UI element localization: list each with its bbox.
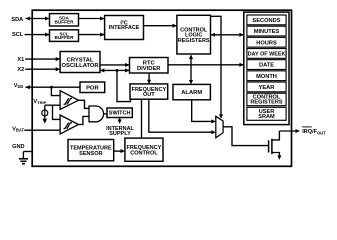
svg-text:INTERFACE: INTERFACE [109, 25, 140, 31]
svg-text:BUFFER: BUFFER [54, 35, 74, 40]
svg-text:VDD: VDD [14, 83, 24, 89]
svg-text:SCL: SCL [12, 32, 24, 38]
svg-text:REGISTERS: REGISTERS [250, 100, 283, 106]
svg-text:MONTH: MONTH [256, 74, 277, 80]
svg-text:SUPPLY: SUPPLY [109, 131, 131, 137]
svg-text:DIVIDER: DIVIDER [137, 66, 161, 72]
svg-text:ALARM: ALARM [181, 90, 202, 96]
svg-text:OUT: OUT [143, 92, 155, 98]
svg-text:GND: GND [12, 144, 24, 150]
svg-text:MINUTES: MINUTES [254, 29, 280, 35]
svg-text:SENSOR: SENSOR [79, 151, 102, 157]
svg-text:VBAT: VBAT [12, 127, 24, 133]
svg-text:SECONDS: SECONDS [252, 18, 280, 24]
svg-text:DATE: DATE [259, 63, 274, 69]
svg-text:DAY OF WEEK: DAY OF WEEK [248, 51, 286, 57]
svg-text:IRQ/FOUT: IRQ/FOUT [302, 129, 326, 135]
svg-text:SDA: SDA [11, 17, 23, 23]
svg-text:X2: X2 [17, 67, 24, 73]
svg-text:X1: X1 [17, 57, 24, 63]
svg-text:HOURS: HOURS [256, 40, 277, 46]
svg-text:REGISTERS: REGISTERS [178, 38, 210, 44]
svg-text:OSCILLATOR: OSCILLATOR [61, 63, 99, 69]
svg-text:YEAR: YEAR [259, 85, 275, 91]
svg-text:CONTROL: CONTROL [130, 150, 158, 156]
svg-text:SRAM: SRAM [258, 114, 275, 120]
svg-text:POR: POR [86, 85, 99, 91]
svg-text:SWITCH: SWITCH [109, 111, 131, 117]
svg-text:VTRIP: VTRIP [33, 99, 46, 105]
svg-text:BUFFER: BUFFER [54, 19, 74, 24]
